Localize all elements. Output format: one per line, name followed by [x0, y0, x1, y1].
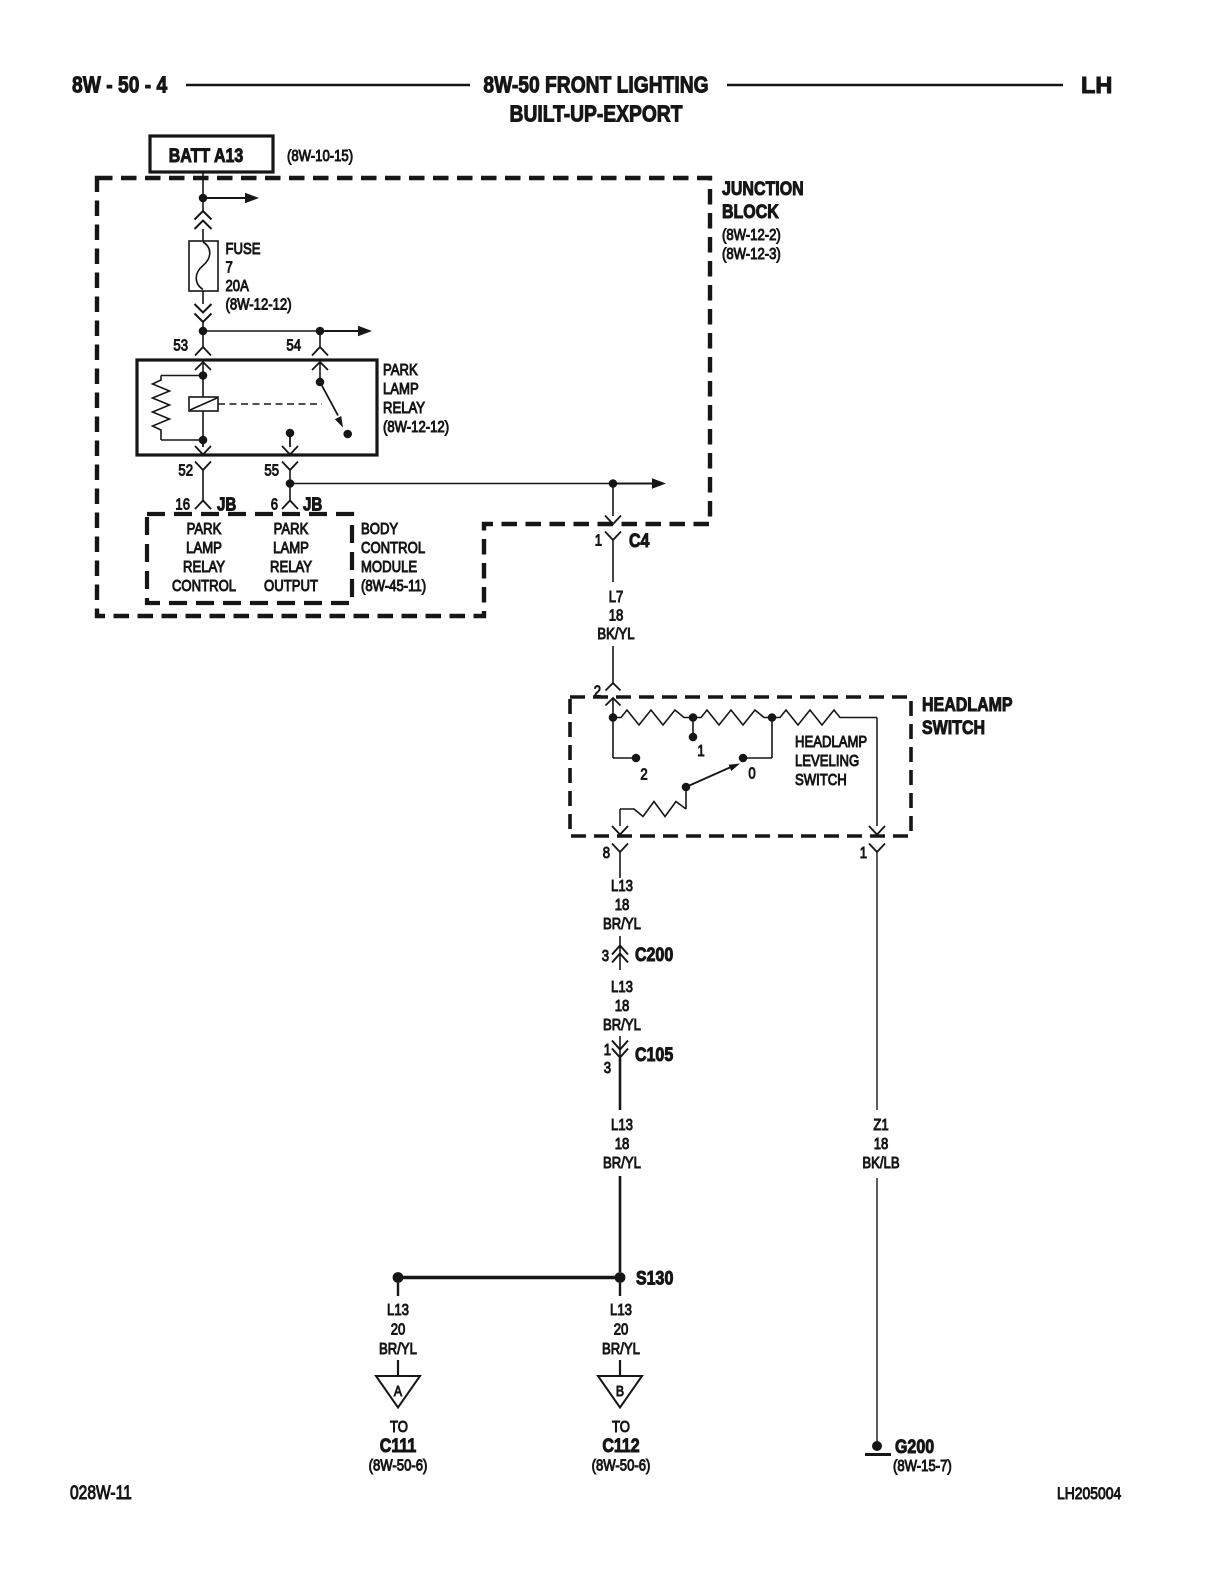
svg-text:OUTPUT: OUTPUT: [264, 578, 318, 595]
svg-text:SWITCH: SWITCH: [922, 717, 985, 739]
svg-text:BR/YL: BR/YL: [603, 916, 641, 933]
svg-text:18: 18: [615, 998, 630, 1015]
svg-text:(8W-12-2): (8W-12-2): [722, 227, 781, 244]
svg-text:SWITCH: SWITCH: [795, 772, 847, 789]
svg-text:RELAY: RELAY: [383, 400, 425, 417]
svg-text:BR/YL: BR/YL: [379, 1341, 417, 1358]
svg-text:0: 0: [748, 765, 755, 782]
svg-text:HEADLAMP: HEADLAMP: [922, 694, 1013, 716]
svg-text:G200: G200: [895, 1436, 934, 1458]
svg-text:52: 52: [178, 462, 193, 479]
svg-text:55: 55: [264, 462, 279, 479]
svg-text:028W-11: 028W-11: [70, 1482, 132, 1504]
svg-text:8: 8: [603, 845, 610, 862]
svg-text:16: 16: [175, 496, 190, 513]
svg-text:1: 1: [860, 845, 867, 862]
svg-text:54: 54: [286, 337, 301, 354]
svg-text:A: A: [394, 1383, 403, 1399]
svg-text:BATT A13: BATT A13: [169, 145, 244, 167]
svg-text:(8W-12-12): (8W-12-12): [226, 296, 292, 313]
svg-text:18: 18: [609, 607, 624, 624]
svg-text:FUSE: FUSE: [226, 241, 261, 258]
svg-text:PARK: PARK: [274, 521, 309, 538]
svg-text:C105: C105: [635, 1044, 673, 1066]
svg-text:S130: S130: [636, 1267, 673, 1289]
svg-text:BLOCK: BLOCK: [722, 201, 779, 223]
svg-text:C111: C111: [380, 1435, 417, 1457]
svg-text:1: 1: [697, 743, 704, 760]
svg-text:BK/YL: BK/YL: [597, 626, 634, 643]
svg-text:3: 3: [602, 948, 609, 965]
svg-text:LEVELING: LEVELING: [795, 753, 859, 770]
svg-text:C4: C4: [629, 530, 650, 552]
svg-text:JUNCTION: JUNCTION: [722, 178, 804, 200]
svg-text:8W-50 FRONT LIGHTING: 8W-50 FRONT LIGHTING: [483, 72, 708, 98]
svg-text:18: 18: [615, 897, 630, 914]
svg-text:L13: L13: [610, 1302, 632, 1319]
svg-text:3: 3: [604, 1060, 611, 1077]
svg-text:JB: JB: [303, 494, 322, 515]
svg-text:BR/YL: BR/YL: [602, 1341, 640, 1358]
svg-text:(8W-50-6): (8W-50-6): [369, 1457, 428, 1474]
svg-text:LAMP: LAMP: [186, 540, 222, 557]
svg-text:C200: C200: [635, 944, 673, 966]
svg-text:BK/LB: BK/LB: [862, 1155, 899, 1172]
svg-text:1: 1: [595, 532, 602, 549]
svg-text:(8W-12-12): (8W-12-12): [383, 419, 449, 436]
svg-text:HEADLAMP: HEADLAMP: [795, 734, 867, 751]
svg-text:2: 2: [640, 766, 647, 783]
svg-text:Z1: Z1: [873, 1117, 888, 1134]
svg-text:JB: JB: [217, 494, 236, 515]
svg-text:LH205004: LH205004: [1057, 1485, 1122, 1504]
svg-text:L13: L13: [387, 1302, 409, 1319]
svg-text:BR/YL: BR/YL: [603, 1017, 641, 1034]
svg-text:CONTROL: CONTROL: [172, 578, 236, 595]
svg-text:1: 1: [604, 1042, 611, 1059]
svg-text:B: B: [616, 1383, 624, 1399]
svg-text:RELAY: RELAY: [183, 559, 225, 576]
svg-text:PARK: PARK: [187, 521, 222, 538]
svg-text:7: 7: [226, 259, 233, 276]
svg-text:20A: 20A: [226, 278, 250, 295]
svg-text:RELAY: RELAY: [270, 559, 312, 576]
svg-text:BR/YL: BR/YL: [603, 1155, 641, 1172]
svg-text:L13: L13: [611, 1117, 633, 1134]
svg-text:18: 18: [874, 1136, 889, 1153]
svg-text:18: 18: [615, 1136, 630, 1153]
svg-text:MODULE: MODULE: [361, 559, 417, 576]
svg-text:6: 6: [271, 496, 278, 513]
svg-text:BODY: BODY: [361, 521, 398, 538]
svg-text:20: 20: [614, 1321, 629, 1338]
svg-text:LAMP: LAMP: [273, 540, 309, 557]
svg-text:(8W-50-6): (8W-50-6): [592, 1457, 651, 1474]
svg-text:(8W-10-15): (8W-10-15): [287, 148, 353, 165]
svg-text:L13: L13: [611, 878, 633, 895]
svg-text:20: 20: [391, 1321, 406, 1338]
svg-text:(8W-12-3): (8W-12-3): [722, 246, 781, 263]
svg-text:(8W-45-11): (8W-45-11): [361, 578, 426, 595]
svg-text:53: 53: [173, 337, 188, 354]
svg-text:BUILT-UP-EXPORT: BUILT-UP-EXPORT: [510, 101, 683, 127]
svg-text:LAMP: LAMP: [383, 381, 419, 398]
svg-text:PARK: PARK: [383, 362, 418, 379]
svg-text:8W - 50 - 4: 8W - 50 - 4: [72, 72, 167, 98]
svg-text:LH: LH: [1081, 72, 1112, 98]
svg-text:C112: C112: [602, 1435, 639, 1457]
svg-text:(8W-15-7): (8W-15-7): [893, 1458, 952, 1475]
svg-text:L7: L7: [609, 589, 624, 606]
svg-text:L13: L13: [611, 979, 633, 996]
svg-text:CONTROL: CONTROL: [361, 540, 425, 557]
